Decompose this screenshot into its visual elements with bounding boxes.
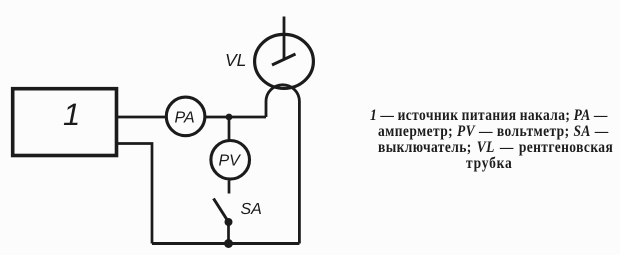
ammeter PA xyxy=(166,97,205,136)
caption line 3 xyxy=(378,139,613,154)
wire junction to PV xyxy=(228,117,231,140)
voltmeter PV xyxy=(211,141,250,180)
wire PA to cathode left lead xyxy=(206,116,267,119)
wire PV to switch xyxy=(228,181,231,194)
node bottom junction xyxy=(224,239,233,248)
cathode filament loop and leads xyxy=(266,85,299,244)
wire box lower to down corner xyxy=(118,144,152,244)
svg-text:SA: SA xyxy=(241,201,262,218)
switch SA pivot dot xyxy=(225,218,233,226)
caption line 1 xyxy=(370,107,608,122)
svg-text:PV: PV xyxy=(219,153,242,170)
svg-text:PA: PA xyxy=(175,110,195,127)
power source box 1 xyxy=(13,89,117,156)
node junction xyxy=(226,114,233,121)
switch SA blade xyxy=(214,199,229,223)
wire bottom return xyxy=(152,242,299,245)
wire box to PA xyxy=(118,116,165,119)
anode target plate xyxy=(272,54,296,65)
caption line 2 xyxy=(378,123,609,138)
svg-text:VL: VL xyxy=(225,50,246,70)
caption line 4 xyxy=(466,155,513,170)
svg-text:1: 1 xyxy=(63,97,80,132)
wire switch to bottom xyxy=(227,222,230,244)
x-ray tube VL envelope xyxy=(255,34,314,88)
anode lead xyxy=(283,17,286,60)
